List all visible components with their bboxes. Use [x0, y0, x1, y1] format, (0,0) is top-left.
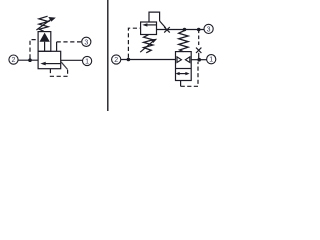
svg-text:2: 2	[114, 57, 118, 64]
feedback loop over pilot valve	[149, 12, 160, 22]
poppet cone (filled triangle)	[40, 33, 50, 42]
diagonal connector from loop to pilot outlet line	[160, 21, 166, 28]
dashed vent line from X branch down	[198, 30, 200, 46]
junction dot on port 1 line	[197, 58, 201, 62]
svg-text:1: 1	[209, 57, 213, 64]
cell divider of V2	[176, 68, 192, 70]
pilot outlet line to port 3	[157, 29, 205, 31]
divider line between the two schematics	[107, 0, 109, 111]
plugged port X2 on vent line	[196, 48, 201, 53]
svg-text:3: 3	[207, 26, 211, 33]
port 1 line (right)	[61, 59, 83, 61]
port 3 stub from top of body	[56, 42, 58, 51]
drain diagonal from body right edge	[61, 62, 68, 70]
adjustment arrow through pilot spring	[140, 41, 154, 53]
port label circle 1 (right schematic)	[207, 55, 216, 64]
junction dot (X branch)	[197, 28, 201, 32]
port label circle 3 (right schematic)	[204, 24, 213, 33]
junction dot (spring branch)	[183, 28, 187, 32]
dashed drain path below body	[50, 69, 67, 76]
flow arrow inside pilot valve pointing left	[147, 24, 157, 26]
main valve box V2 (two cells)	[176, 52, 192, 81]
adjustment arrow through spring	[36, 19, 51, 30]
main body box of valve V1	[38, 51, 61, 68]
port label circle 3	[82, 37, 91, 46]
plugged port X1 on pilot outlet	[164, 27, 170, 33]
port 1 line (right of main valve)	[191, 59, 206, 61]
port label circle 2 (right schematic)	[112, 55, 121, 64]
port 2 line (left, inlet)	[18, 59, 38, 61]
port label circle 2	[9, 55, 18, 64]
main valve spring	[179, 31, 188, 52]
drain path below main valve	[180, 81, 182, 87]
port 3 dashed line	[57, 41, 82, 43]
double-headed flow arrow in bottom cell	[178, 73, 188, 75]
closed-seat chevron right in top cell	[185, 57, 189, 63]
svg-text:3: 3	[84, 39, 88, 46]
dashed pilot supply line up to pilot valve	[128, 28, 140, 58]
port label circle 1	[83, 56, 92, 65]
pilot valve box U1	[141, 22, 157, 35]
junction dot on port 2 line	[127, 58, 131, 62]
svg-text:1: 1	[85, 59, 89, 66]
spring (adjustable) on top of valve V1	[39, 16, 48, 31]
port 2 line (left) to main valve	[121, 59, 176, 61]
poppet chamber box of valve V1	[38, 32, 51, 52]
flow arrow inside V1 pointing left	[45, 63, 61, 65]
svg-text:2: 2	[12, 57, 16, 64]
closed-seat chevron left in top cell	[177, 57, 181, 63]
adjustable spring below pilot valve	[144, 35, 153, 53]
port number digits	[12, 26, 214, 65]
poppet stem	[44, 42, 46, 52]
junction dot on port 2 line	[28, 58, 32, 62]
pilot line (dashed) from junction up to poppet chamber	[30, 40, 38, 59]
